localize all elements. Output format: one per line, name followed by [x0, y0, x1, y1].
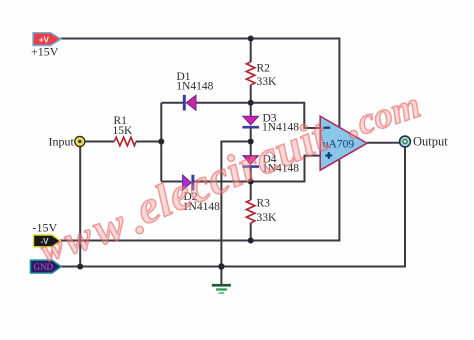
svg-text:+V: +V [39, 35, 50, 44]
svg-text:Output: Output [413, 134, 448, 148]
svg-text:1N4148: 1N4148 [176, 80, 213, 92]
svg-text:15K: 15K [113, 125, 134, 137]
svg-text:R3: R3 [257, 198, 271, 210]
svg-text:33K: 33K [257, 212, 278, 224]
svg-text:Input: Input [49, 135, 75, 149]
svg-text:R2: R2 [257, 63, 271, 75]
svg-text:33K: 33K [257, 76, 278, 88]
svg-text:+15V: +15V [31, 45, 59, 59]
